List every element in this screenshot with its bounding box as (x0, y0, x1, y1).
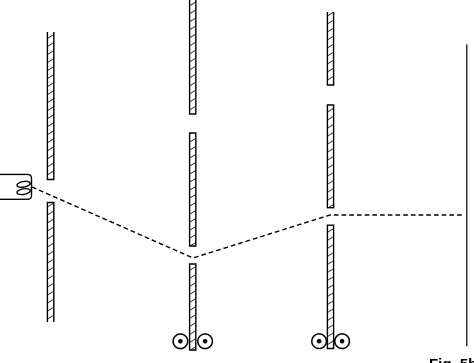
svg-text:Fig. 5b: Fig. 5b (429, 356, 474, 363)
